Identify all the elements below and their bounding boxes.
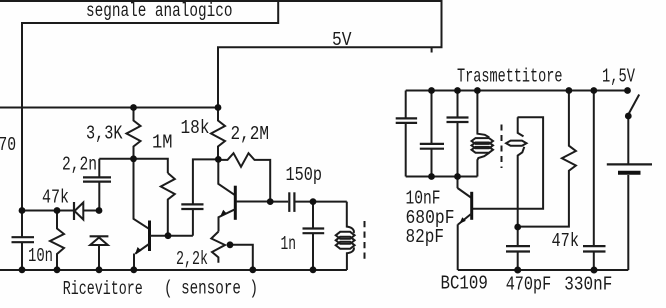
dashed core (receiver) [364,221,366,262]
label 5V [332,29,352,51]
label 2,2M [231,123,270,145]
svg-text:47k: 47k [552,230,580,252]
svg-text:Ricevitore: Ricevitore [63,278,143,300]
junction dots transmitter [428,87,632,273]
transistor Q2 [219,186,237,232]
capacitor 2,2n [83,159,111,211]
wire input row [22,210,99,212]
wire node A (3,3K bottom to 1M top) [99,159,168,173]
junction dots receiver [19,104,317,273]
wire bottom rail (transmitter) [458,269,629,271]
diode D1 [74,202,83,220]
capacitor 470pF [506,227,530,270]
label 18k [181,117,210,139]
svg-text:18k: 18k [181,117,210,139]
wire 5V stub tick [431,47,433,52]
svg-text:47k: 47k [42,187,69,209]
transistor Q3 BC109 collector wire [458,188,472,198]
svg-text:1M: 1M [152,132,173,154]
label BC109 [441,273,488,295]
svg-text:BC109: BC109 [441,273,488,295]
resistor 47k (transmitter) [518,91,576,227]
svg-text:82pF: 82pF [406,226,445,248]
wire left supply rail [0,107,218,109]
label 3,3K [86,123,123,145]
inductor L3 feedback winding [506,117,526,227]
capacitor C2 (interstage) [181,159,218,235]
label 680pF [406,207,455,229]
svg-text:3,3K: 3,3K [86,123,123,145]
label segnale analogico [86,0,233,22]
capacitor C10n branch [396,91,417,177]
inductor L2 primary winding [472,91,494,177]
capacitor 1n [303,202,325,270]
wire bottom rail (receiver) [0,269,347,271]
capacitor 10n [12,211,35,270]
label 330nF [564,273,612,295]
capacitor C680p branch [420,91,444,177]
dashed core (transformer) [501,125,503,169]
transistor Q1 [134,221,151,270]
wire segnale analogico loop [22,0,278,211]
transistor Q2 collector wire [218,159,235,195]
svg-text:( sensore ): ( sensore ) [164,277,258,299]
wire Q2 base [236,201,270,203]
label 2,2n [62,154,97,176]
capacitor 150p [270,192,347,212]
diode D2 [90,236,109,269]
svg-text:2,2n: 2,2n [62,154,97,176]
resistor 2,2M [218,153,270,201]
svg-text:1n: 1n [281,233,297,255]
wire top border [0,0,442,2]
label 82pF [406,226,445,248]
resistor 1M [161,173,175,236]
capacitor C82p branch [447,91,469,189]
resistor 18k [211,108,225,160]
label 470pF [506,273,552,295]
svg-text:Trasmettitore: Trasmettitore [457,66,563,88]
label 1M [152,132,173,154]
wire transmitter top rail [406,90,628,92]
label Ricevitore [63,278,143,300]
label 10n [28,245,53,267]
transistor Q1 collector wire [134,159,150,229]
svg-text:1,5V: 1,5V [602,66,635,88]
switch S1 [628,95,639,115]
label 47k transmitter [552,230,580,252]
svg-text:2,2M: 2,2M [231,123,270,145]
wire feedback loop top [472,117,543,209]
label 2,2k [176,248,208,270]
label 1,5V [602,66,635,88]
label 470 (clipped at edge) [0,134,16,156]
transistor Q3 BC109 [458,192,474,270]
resistor 47k (receiver) [50,211,64,270]
capacitor 330nF [583,91,606,271]
svg-text:470: 470 [0,134,16,156]
resistor 3,3K [127,108,141,159]
label 150p [286,164,323,186]
wire 5V supply [218,0,442,108]
inductor L1 (receiver coil) [336,202,355,270]
wire emitter tap [230,245,253,270]
svg-text:470pF: 470pF [506,273,552,295]
svg-text:150p: 150p [286,164,323,186]
label ( sensore ) [164,277,258,299]
svg-text:segnale analogico: segnale analogico [86,0,233,22]
wire tank node [406,176,478,178]
svg-text:10n: 10n [28,245,53,267]
label Trasmettitore [457,66,563,88]
battery B1 [607,116,652,270]
resistor 2,2k (tilted) [211,232,225,263]
label 1n [281,233,297,255]
label 10nF [406,188,441,210]
svg-text:330nF: 330nF [564,273,612,295]
svg-text:2,2k: 2,2k [176,248,208,270]
wire Q1 base [150,235,193,237]
label 47k receiver [42,187,69,209]
svg-text:5V: 5V [332,29,352,51]
